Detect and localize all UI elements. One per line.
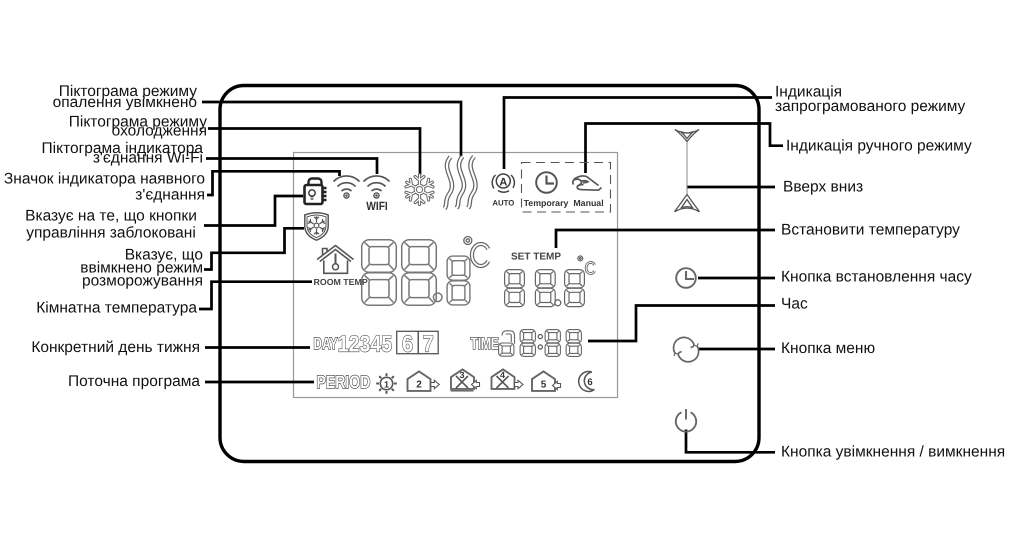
svg-text:12345: 12345 xyxy=(338,331,393,357)
manual hand icon xyxy=(573,176,602,190)
thermostat body xyxy=(220,86,759,462)
set temp digit 1 xyxy=(505,270,525,307)
wire menu button label xyxy=(698,348,775,351)
svg-text:ROOM TEMP: ROOM TEMP xyxy=(314,277,368,287)
temporary clock icon xyxy=(536,172,557,193)
heat waves icon xyxy=(445,157,476,209)
svg-text:1: 1 xyxy=(384,380,389,390)
set temp digit 3 xyxy=(565,270,585,307)
set temp C symbol xyxy=(586,262,594,273)
svg-text:охолодження: охолодження xyxy=(112,123,207,140)
svg-text:4: 4 xyxy=(500,370,505,380)
room temp house icon xyxy=(317,246,354,274)
wire defrost label to shield icon xyxy=(204,228,304,269)
period 5 house xyxy=(532,371,561,391)
time digit 4 xyxy=(566,330,581,357)
svg-text:6: 6 xyxy=(402,330,413,356)
set temp decimal dot xyxy=(555,300,561,306)
svg-text:Конкретний день тижня: Конкретний день тижня xyxy=(31,339,200,356)
snowflake cooling icon xyxy=(406,175,433,205)
period 6 moon xyxy=(579,372,595,392)
wire power button label xyxy=(686,430,775,453)
period 4 house xyxy=(492,369,524,389)
svg-text:Індикація ручного режиму: Індикація ручного режиму xyxy=(786,138,972,155)
svg-text:5: 5 xyxy=(541,380,547,391)
day box 6 xyxy=(397,330,419,356)
svg-text:з'єднання Wi-Fi: з'єднання Wi-Fi xyxy=(93,150,203,167)
lock icon xyxy=(305,179,327,205)
svg-text:запрограмованого режиму: запрограмованого режиму xyxy=(775,98,966,115)
set temp digit 2 xyxy=(535,270,555,307)
svg-text:Temporary: Temporary xyxy=(524,198,569,208)
svg-text:7: 7 xyxy=(423,330,434,356)
CONNECTOR LINES xyxy=(199,98,783,453)
svg-text:6: 6 xyxy=(587,377,592,388)
wire day label to DAY xyxy=(205,346,310,349)
display panel xyxy=(294,153,618,398)
wire room temp label to ROOM TEMP xyxy=(199,282,312,309)
set temp degree symbol xyxy=(578,256,583,261)
svg-text:з'єднання: з'єднання xyxy=(135,187,205,204)
period 1 sun xyxy=(376,373,397,394)
room temp digit 2 xyxy=(402,240,437,306)
svg-text:SET TEMP: SET TEMP xyxy=(511,252,561,263)
svg-text:Поточна програма: Поточна програма xyxy=(68,373,200,390)
power button xyxy=(676,409,696,432)
wire manual mode label to hand icon xyxy=(586,124,784,174)
svg-text:Встановити температуру: Встановити температуру xyxy=(781,222,960,239)
svg-text:Час: Час xyxy=(781,296,808,313)
room temp digit 1 xyxy=(362,240,397,306)
period 3 house xyxy=(451,369,480,390)
svg-text:2: 2 xyxy=(416,380,422,391)
wire connection label to wifi icon xyxy=(207,171,340,195)
time colon xyxy=(538,335,542,350)
WIFI icon xyxy=(364,176,390,198)
dashed mode box xyxy=(522,163,611,213)
wire programmed mode label to AUTO icon xyxy=(504,98,772,170)
room temp C symbol xyxy=(472,244,488,266)
wire heating label to heat waves xyxy=(202,102,461,157)
time digit 2 xyxy=(520,330,535,357)
wire cooling label to snowflake xyxy=(208,129,420,176)
LABELS-LEFT xyxy=(4,83,207,390)
LABELS-RIGHT xyxy=(775,84,1005,461)
svg-text:управління заблоковані: управління заблоковані xyxy=(26,225,196,242)
svg-text:розморожування: розморожування xyxy=(82,273,203,290)
wire set temperature label xyxy=(556,230,775,248)
period 2 house xyxy=(408,371,440,391)
wire program label to PERIOD xyxy=(205,381,314,384)
menu button xyxy=(674,337,699,361)
wire time label to TIME digits xyxy=(588,306,775,342)
svg-text:TIME: TIME xyxy=(471,335,499,353)
wire time set button label xyxy=(698,277,775,280)
svg-text:3: 3 xyxy=(459,370,464,380)
svg-text:Кнопка увімкнення / вимкнення: Кнопка увімкнення / вимкнення xyxy=(781,444,1005,461)
svg-text:WIFI: WIFI xyxy=(366,199,388,213)
time digit 3 xyxy=(545,330,560,357)
svg-text:PERIOD: PERIOD xyxy=(317,372,371,392)
svg-text:Кнопка встановлення часу: Кнопка встановлення часу xyxy=(781,269,972,286)
room temp digit 3 xyxy=(447,256,470,305)
day box 7 xyxy=(418,330,438,356)
up down control xyxy=(675,130,700,212)
clock button xyxy=(676,268,696,288)
svg-text:Кнопка меню: Кнопка меню xyxy=(781,340,875,357)
svg-text:DAY: DAY xyxy=(314,335,338,353)
svg-text:A: A xyxy=(499,176,507,188)
svg-text:Вверх вниз: Вверх вниз xyxy=(783,179,863,196)
room temp degree symbol xyxy=(464,237,472,245)
room temp decimal dot xyxy=(433,293,442,302)
svg-text:Manual: Manual xyxy=(573,198,603,208)
wifi connection icon xyxy=(334,176,360,198)
svg-text:Вказує на те, що кнопки: Вказує на те, що кнопки xyxy=(25,208,197,225)
svg-text:опалення увімкнено: опалення увімкнено xyxy=(53,94,197,111)
svg-text:Кімнатна температура: Кімнатна температура xyxy=(36,300,197,317)
wire up down label xyxy=(688,186,776,189)
AUTO icon xyxy=(492,174,514,192)
wire lock label to lock icon xyxy=(204,196,303,226)
svg-text:AUTO: AUTO xyxy=(492,199,514,208)
time digit 1 (2-shape) xyxy=(499,331,515,356)
defrost shield icon xyxy=(305,213,328,240)
svg-text:Значок індикатора наявного: Значок індикатора наявного xyxy=(4,171,205,188)
wire wifi label to WIFI icon xyxy=(206,159,377,175)
